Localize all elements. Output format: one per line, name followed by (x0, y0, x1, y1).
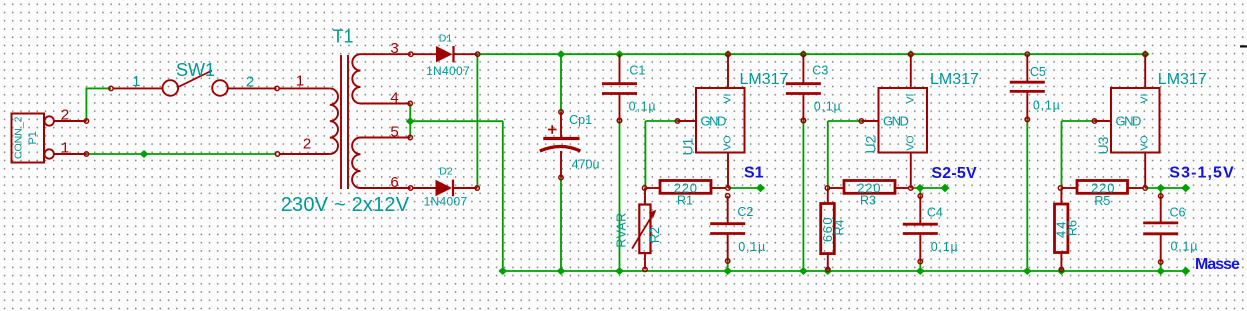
svg-text:C1: C1 (629, 64, 645, 78)
junction C6 on rail (1156, 267, 1165, 275)
D1 cathode wire (454, 53, 478, 55)
svg-text:S2-5V: S2-5V (931, 165, 977, 182)
Cp1 curved plate (540, 147, 581, 152)
wire U3 GND to adjust junction (1062, 120, 1095, 122)
svg-text:GND: GND (701, 114, 727, 129)
D1 cathode bar (452, 46, 454, 62)
svg-text:2: 2 (303, 136, 311, 153)
junction C4 branch (916, 184, 925, 192)
R5 left pin (1063, 187, 1077, 189)
svg-text:RVAR: RVAR (614, 212, 628, 247)
C6 plates (1143, 221, 1178, 224)
U2 pin GND (861, 120, 878, 122)
wire P1 pin1 to transformer pin2 (86, 153, 276, 155)
junction U1 VI on rail (724, 50, 733, 58)
wire C2 to bottom rail (727, 261, 729, 271)
svg-text:R3: R3 (860, 194, 876, 208)
diode D2 (413, 166, 479, 209)
svg-text:T1: T1 (332, 27, 353, 47)
Cp1 plus sign (548, 129, 557, 131)
C5 plates (1010, 81, 1045, 84)
junction C1 top on rail (615, 50, 624, 58)
T1 pin 4 (361, 103, 411, 105)
svg-text:R5: R5 (1094, 194, 1110, 208)
U1 pin VO (727, 153, 729, 189)
T1 primary winding (330, 88, 338, 154)
P1 pin 2 (45, 116, 54, 125)
svg-text:R1: R1 (677, 193, 693, 207)
wire top supply rail (478, 53, 1146, 55)
wire center tap pins 4-5 (409, 104, 411, 138)
R6 bottom pin (1060, 253, 1062, 270)
junction U3 VI on rail (1141, 50, 1150, 58)
connector P1 (CONN_2) (12, 107, 89, 163)
wire C4 top (919, 188, 921, 196)
capacitor C4 (0,1µ) (903, 194, 959, 264)
diode D1 (413, 33, 480, 79)
D2 cathode wire (453, 187, 477, 189)
junction Cp1 bottom on rail (557, 267, 566, 275)
capacitor C3 (0,1µ) (786, 52, 842, 123)
switch SW1 (109, 60, 279, 96)
R4 top pin (827, 188, 829, 204)
C6 top pin (1160, 196, 1162, 222)
svg-text:R4: R4 (832, 219, 846, 235)
node S1 wire end (756, 184, 765, 192)
Cp1 top pin (560, 112, 562, 137)
junction on lower wire (140, 150, 149, 158)
junction R6 on rail (1057, 267, 1066, 275)
T1 pin 2 (279, 153, 330, 155)
junction R4 on rail (823, 267, 832, 275)
R1 body (660, 181, 711, 194)
T1 secondary winding bottom (352, 138, 360, 189)
resistor R3 (220) (825, 180, 909, 207)
C5 top pin (1026, 54, 1028, 81)
svg-text:R2: R2 (648, 227, 662, 243)
resistor R6 (44) (1054, 188, 1080, 272)
R1 right pin (711, 187, 726, 189)
svg-text:C5: C5 (1030, 65, 1046, 79)
wire U2 GND to adjust junction (828, 120, 862, 122)
wire bottom ground rail (503, 270, 1186, 272)
junction C2 on rail (723, 267, 732, 275)
SW1 contact circle right (212, 80, 228, 96)
wire C6 top (1160, 188, 1162, 196)
U1 pin GND (678, 120, 697, 122)
C3 plates (786, 82, 821, 85)
svg-text:VO: VO (722, 135, 734, 150)
R2 top pin (644, 188, 646, 205)
U1 pin VI (727, 54, 729, 88)
svg-text:VI: VI (904, 94, 916, 104)
junction C5 on rail (1023, 267, 1032, 275)
C2 top pin (727, 196, 729, 223)
R3 right pin (895, 187, 909, 189)
SW1 contact circle left (163, 80, 179, 96)
resistor R4 (660) (820, 188, 846, 272)
R6 body (1055, 204, 1068, 253)
svg-text:VI: VI (722, 94, 734, 104)
resistor R5 (220) (1058, 180, 1143, 208)
svg-text:D2: D2 (439, 166, 453, 178)
regulator U2 LM317 (859, 52, 979, 190)
U3 pin VI (1144, 54, 1146, 88)
node Masse wire end (1181, 267, 1190, 275)
svg-text:0,1µ: 0,1µ (1171, 240, 1199, 254)
svg-text:GND: GND (883, 114, 909, 129)
svg-text:C2: C2 (737, 205, 753, 219)
svg-text:C3: C3 (812, 64, 828, 78)
svg-text:LM317: LM317 (740, 71, 789, 88)
wire center tap to ground drop (410, 120, 503, 122)
capacitor C1 (0,1µ) (602, 54, 656, 123)
svg-text:GND: GND (1116, 114, 1142, 129)
R5 right pin (1128, 187, 1144, 189)
C1 bottom pin (619, 94, 621, 120)
R3 left pin (830, 187, 845, 189)
junction Cp1 top on rail (557, 50, 566, 58)
T1 secondary winding top (352, 54, 360, 103)
C6 bottom pin (1160, 235, 1162, 262)
wire D2 cathode up to D1 cathode (476, 54, 478, 188)
svg-text:0,1µ: 0,1µ (814, 100, 842, 114)
svg-text:4: 4 (390, 89, 398, 106)
wire ground drop vertical (502, 121, 504, 271)
C1 plates (602, 82, 637, 85)
svg-text:0,1µ: 0,1µ (931, 240, 959, 254)
U1 body (696, 88, 745, 153)
resistor R1 (220) (642, 180, 726, 207)
SW1 lever (178, 71, 212, 88)
SW1 pin 1 (109, 86, 113, 90)
wire Cp1 rail to cap (560, 54, 562, 112)
Cp1 top plate (543, 137, 579, 140)
wire Cp1 to bottom rail (560, 178, 562, 272)
SW1 pin 2 (228, 87, 277, 89)
C5 bottom pin (1026, 92, 1028, 119)
svg-text:1N4007: 1N4007 (424, 195, 468, 209)
svg-text:U3: U3 (1095, 136, 1111, 154)
R5 body (1077, 181, 1128, 194)
svg-text:VO: VO (1139, 135, 1151, 150)
R2 arrow (632, 213, 653, 248)
junction C1 bottom on rail (615, 267, 624, 275)
U3 pin GND (1095, 120, 1112, 122)
wire C5 to bottom rail (1026, 119, 1028, 271)
svg-text:1: 1 (132, 73, 140, 90)
svg-text:S1: S1 (744, 164, 764, 181)
U3 body (1111, 88, 1160, 153)
wire U1 output to label S1 (728, 187, 761, 189)
svg-text:0,1µ: 0,1µ (738, 240, 766, 254)
T1 pin 3 (361, 53, 411, 55)
wire P1 pin2 up to switch row (85, 88, 87, 122)
svg-text:3: 3 (390, 40, 398, 57)
junction C3 bottom on rail (799, 267, 808, 275)
svg-text:1: 1 (61, 140, 69, 157)
svg-text:0,1µ: 0,1µ (1033, 99, 1061, 113)
svg-text:U1: U1 (679, 137, 695, 155)
wire C6 to bottom rail (1160, 262, 1162, 271)
wire U2 output row to label S2 (911, 187, 945, 189)
svg-text:5: 5 (390, 123, 398, 140)
junction center tap (406, 117, 415, 125)
U3 pin VO (1144, 153, 1146, 189)
svg-text:SW1: SW1 (176, 60, 215, 80)
wire C4 to bottom rail (919, 262, 921, 272)
wire U3 output row to label S3 (1145, 187, 1186, 189)
T1 core (340, 55, 342, 189)
D2 cathode bar (452, 180, 454, 197)
svg-text:C6: C6 (1170, 206, 1186, 220)
svg-text:0,1µ: 0,1µ (629, 100, 657, 114)
node S3 wire end (1181, 184, 1190, 192)
svg-text:S3-1,5V: S3-1,5V (1169, 165, 1235, 182)
U2 body (879, 88, 928, 153)
wire U1 GND to adjust junction (645, 120, 677, 122)
T1 pin 5 (361, 137, 411, 139)
R2 body (639, 205, 650, 254)
svg-text:1N4007: 1N4007 (426, 64, 470, 78)
U2 pin VI (910, 54, 912, 88)
svg-text:2: 2 (246, 73, 254, 90)
D1 anode wire (413, 53, 436, 55)
Cp1 bottom pin (560, 151, 562, 178)
junction ground drop on rail (498, 267, 507, 275)
D2 anode wire (413, 187, 436, 189)
capacitor C2 (0,1µ) (710, 194, 766, 264)
svg-text:P1: P1 (27, 131, 39, 144)
svg-text:Cp1: Cp1 (569, 113, 592, 127)
svg-text:CONN_2: CONN_2 (13, 116, 25, 159)
wire C3 to bottom rail (802, 121, 804, 272)
cut-off text fragment at right edge (1240, 45, 1247, 47)
capacitor C5 (0,1µ) (1010, 52, 1061, 122)
svg-text:LM317: LM317 (1158, 71, 1207, 88)
regulator U3 LM317 (1092, 52, 1207, 190)
C4 plates (903, 223, 938, 226)
svg-text:Masse: Masse (1195, 256, 1240, 273)
capacitor Cp1 (electrolytic 470u) (540, 110, 600, 180)
R1 left pin (647, 187, 660, 189)
C3 bottom pin (802, 94, 804, 120)
capacitor C6 (0,1µ) (1143, 194, 1198, 264)
C4 bottom pin (919, 234, 921, 261)
R4 body (821, 204, 835, 254)
C2 bottom pin (727, 234, 729, 261)
svg-text:LM317: LM317 (930, 71, 979, 88)
T1 pin 1 (279, 87, 330, 89)
svg-text:C4: C4 (927, 206, 943, 220)
junction C4 on rail (916, 267, 925, 275)
C3 top pin (802, 54, 804, 82)
regulator U1 LM317 (675, 52, 788, 190)
svg-text:6: 6 (390, 174, 398, 191)
C4 top pin (919, 196, 921, 223)
R3 body (844, 181, 895, 194)
C2 plates (710, 222, 745, 225)
junction C3 top on rail (799, 50, 808, 58)
R6 top pin (1060, 188, 1062, 204)
svg-text:VI: VI (1139, 94, 1151, 104)
wire C1 to bottom rail (619, 121, 621, 272)
T1 pin 6 (361, 187, 411, 189)
R2 bottom pin (644, 253, 646, 269)
svg-text:R6: R6 (1066, 220, 1080, 236)
D1 triangle (436, 46, 453, 62)
resistor R2 (RVAR potentiometer) (614, 188, 661, 272)
junction U2 VI on rail (906, 50, 915, 58)
svg-text:230V ~ 2x12V: 230V ~ 2x12V (281, 194, 410, 216)
svg-text:470u: 470u (572, 158, 600, 172)
svg-text:U2: U2 (862, 135, 878, 153)
svg-text:1: 1 (296, 73, 304, 90)
U2 pin VO (910, 153, 912, 189)
junction C6 branch (1156, 184, 1165, 192)
P1 body (12, 114, 45, 163)
transformer T1 (275, 27, 413, 217)
svg-text:2: 2 (61, 107, 69, 124)
P1 pin 1 (45, 149, 54, 158)
node S2 wire end (940, 184, 949, 192)
R4 bottom pin (827, 254, 829, 270)
C1 top pin (619, 54, 621, 82)
svg-text:D1: D1 (439, 33, 453, 45)
D2 triangle (436, 180, 453, 197)
svg-text:VO: VO (904, 135, 916, 150)
